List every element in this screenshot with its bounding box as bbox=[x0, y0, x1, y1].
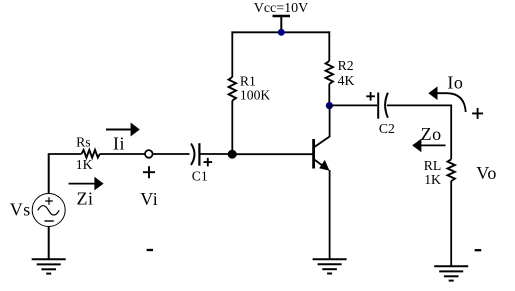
svg-text:C1: C1 bbox=[192, 168, 208, 183]
svg-text:Zo: Zo bbox=[421, 124, 442, 144]
wire C1 to base node bbox=[199, 153, 228, 155]
svg-text:Vs: Vs bbox=[10, 199, 31, 219]
wire output corner down to RL bbox=[450, 105, 452, 160]
transistor Q1 collector lead bbox=[314, 106, 330, 148]
label plus of C2 bbox=[366, 92, 375, 101]
svg-text:Ii: Ii bbox=[113, 133, 125, 153]
ground under emitter bbox=[313, 259, 347, 273]
wire emitter down bbox=[329, 170, 331, 259]
node Vcc junction dot bbox=[278, 29, 285, 36]
svg-text:100K: 100K bbox=[240, 88, 271, 103]
svg-text:RL: RL bbox=[424, 158, 442, 173]
node input terminal (open circle) bbox=[145, 150, 153, 158]
transistor Q1 base bar bbox=[312, 139, 315, 169]
capacitor C2 straight plate bbox=[377, 93, 379, 119]
capacitor C2 curved plate bbox=[385, 93, 388, 118]
svg-text:Io: Io bbox=[447, 73, 463, 93]
node base junction dot bbox=[228, 150, 237, 159]
wire R2 branch lower bbox=[328, 84, 330, 106]
plus sign inside Vs bbox=[45, 197, 53, 205]
svg-text:R1: R1 bbox=[240, 74, 256, 89]
label minus of Vo bbox=[475, 249, 482, 251]
label plus of C1 bbox=[204, 158, 213, 167]
svg-text:Vi: Vi bbox=[140, 189, 158, 209]
wire R2 branch upper bbox=[328, 31, 330, 61]
wire top rail bbox=[231, 31, 330, 33]
arrow Ii bbox=[106, 129, 131, 131]
resistor RL bbox=[448, 159, 455, 181]
svg-text:Rs: Rs bbox=[76, 134, 90, 149]
wire R1 branch upper bbox=[231, 31, 233, 77]
resistor Rs bbox=[82, 150, 100, 158]
ground under Vs bbox=[32, 259, 66, 273]
resistor R2 bbox=[326, 61, 333, 84]
label plus of Vi bbox=[143, 166, 155, 178]
wire terminal to C1 bbox=[153, 153, 190, 155]
Vcc supply T-bar bbox=[273, 15, 291, 18]
minus sign inside Vs bbox=[44, 220, 53, 222]
wire R1 branch lower bbox=[231, 101, 233, 154]
wire Vcc stem bbox=[280, 16, 282, 32]
svg-text:1K: 1K bbox=[76, 157, 93, 172]
wire C2 to output corner bbox=[387, 104, 451, 106]
svg-text:Vcc=10V: Vcc=10V bbox=[254, 1, 309, 16]
arrow Zi bbox=[69, 183, 95, 185]
svg-text:1K: 1K bbox=[424, 172, 441, 187]
wire Vs top bbox=[48, 154, 50, 194]
transistor Q1 emitter lead bbox=[314, 159, 328, 169]
capacitor C1 curved plate bbox=[191, 144, 195, 165]
label minus of Vi bbox=[147, 249, 153, 251]
wire collector node to C2 bbox=[329, 104, 377, 106]
svg-text:4K: 4K bbox=[338, 73, 355, 88]
arrow Io (curved) bbox=[437, 93, 466, 112]
wire base node to transistor bbox=[232, 153, 313, 155]
arrow Zo bbox=[421, 144, 446, 146]
capacitor C1 straight plate bbox=[198, 143, 200, 166]
svg-text:C2: C2 bbox=[379, 121, 395, 136]
svg-text:R2: R2 bbox=[338, 58, 354, 73]
label plus of Vo bbox=[472, 108, 483, 119]
node collector junction dot bbox=[326, 102, 333, 109]
wire input left segment bbox=[48, 153, 82, 155]
resistor R1 bbox=[229, 77, 236, 101]
wire RL to ground bbox=[450, 181, 452, 266]
svg-text:Vo: Vo bbox=[476, 163, 497, 183]
wire Rs to input terminal bbox=[100, 153, 146, 155]
sine wave inside Vs bbox=[38, 206, 59, 216]
svg-text:Zi: Zi bbox=[77, 189, 94, 209]
transistor Q1 emitter arrowhead bbox=[319, 160, 329, 171]
ground under RL bbox=[434, 266, 468, 280]
wire Vs bottom bbox=[48, 226, 50, 259]
source Vs bbox=[32, 194, 65, 227]
